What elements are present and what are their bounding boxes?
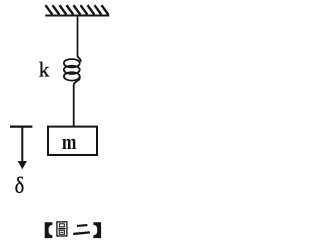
caption bracket left <box>45 222 53 238</box>
arrow shaft <box>21 127 23 162</box>
spring coil loop 3 <box>64 72 80 80</box>
caption glyph tu (figure) outer box <box>57 222 67 236</box>
wire from spring to mass <box>73 85 75 126</box>
svg-text:k: k <box>39 58 50 82</box>
caption glyph tu inner top box <box>59 224 64 227</box>
wire from ceiling to spring <box>77 16 79 57</box>
caption glyph tu middle bar <box>58 228 65 230</box>
caption bracket right <box>93 222 101 238</box>
spring exit curl <box>74 77 80 86</box>
svg-text:m: m <box>62 130 77 154</box>
caption glyph tu bottom box inner tick <box>60 231 64 233</box>
spring coil loop 2 <box>64 66 80 74</box>
arrowhead <box>18 161 27 169</box>
reference line (top of arrow) <box>10 125 32 127</box>
svg-text:δ: δ <box>15 173 25 198</box>
ceiling hatching <box>46 5 109 14</box>
mass box <box>48 127 97 155</box>
spring coil loop 1 <box>64 59 80 67</box>
caption glyph er (two) bottom stroke <box>73 231 90 235</box>
ceiling line <box>45 14 109 16</box>
spring k : entry curl <box>78 56 81 62</box>
caption glyph tu bottom box <box>59 230 64 234</box>
caption glyph er (two) top stroke <box>77 224 88 227</box>
